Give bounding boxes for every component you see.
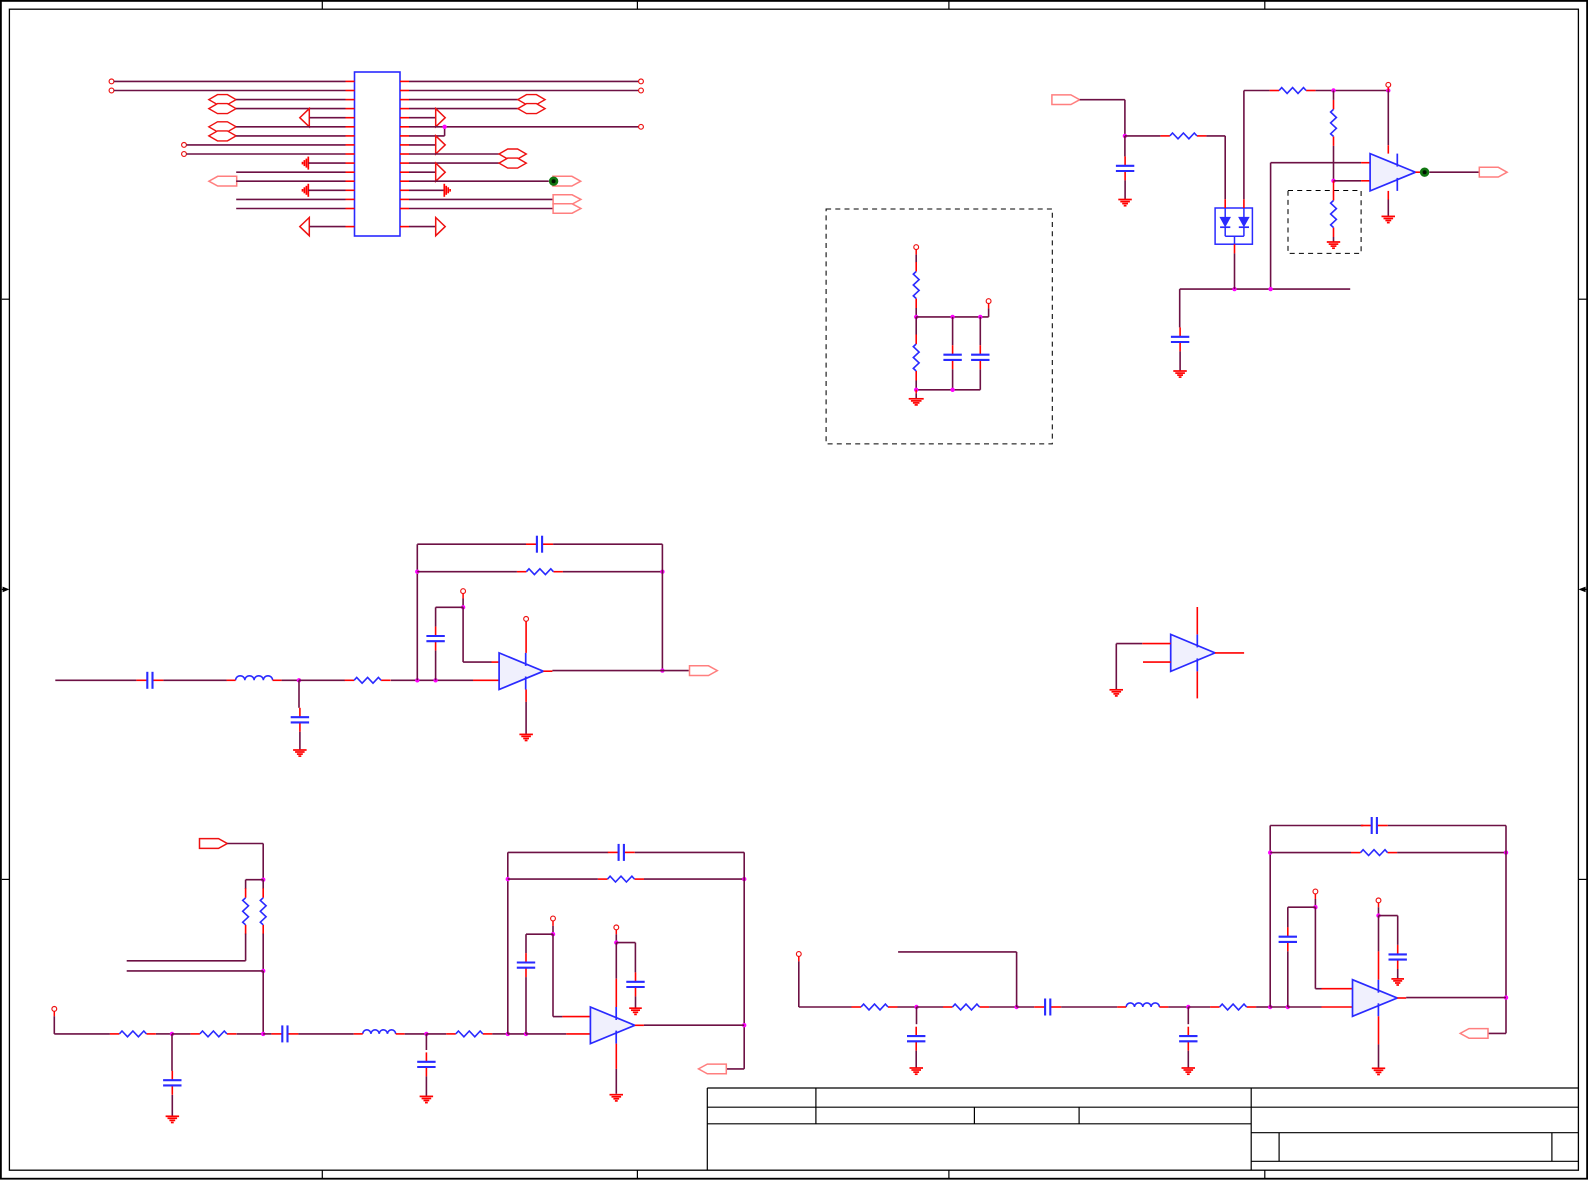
pin (566, 1033, 590, 1035)
capacitor C19 (1179, 1027, 1197, 1051)
wire (507, 852, 509, 1034)
node (524, 1032, 528, 1036)
port OUT5 (1460, 1029, 1488, 1039)
wire (1333, 237, 1335, 242)
wire (917, 1006, 944, 1008)
wire (262, 844, 264, 880)
node (1331, 88, 1335, 92)
ground (910, 1068, 924, 1074)
wire (298, 680, 300, 708)
terminal J2 pin2 (182, 152, 187, 157)
off-page connector P3L (209, 95, 236, 105)
signal ground G3 (444, 184, 450, 197)
pin (615, 930, 617, 935)
op-amp U4 (590, 1007, 635, 1044)
node (1268, 287, 1272, 291)
ground (1391, 979, 1404, 985)
wire (1487, 1032, 1506, 1034)
node (1313, 905, 1317, 909)
wire (1379, 915, 1398, 917)
node (660, 668, 664, 672)
wire (409, 180, 549, 182)
no-connect (524, 617, 529, 622)
ground (1327, 242, 1340, 248)
wire (492, 1033, 508, 1035)
off-page connector P7L (209, 131, 236, 141)
no-connect (551, 916, 556, 921)
ground (1118, 200, 1132, 206)
wire (1180, 288, 1351, 290)
wire (1429, 171, 1479, 173)
wire (1115, 644, 1117, 690)
wire (462, 599, 464, 608)
wire (236, 135, 345, 137)
wire (1270, 1006, 1288, 1008)
wire (409, 108, 518, 110)
capacitor C15 (517, 953, 535, 977)
border center arrow right (1578, 587, 1587, 593)
port OUT2 (1479, 167, 1507, 177)
wire (171, 1034, 173, 1071)
terminal (52, 1007, 57, 1012)
resistor R19 (1351, 850, 1397, 856)
op-amp U3 (499, 653, 543, 690)
wire (409, 198, 553, 200)
wire (391, 679, 473, 681)
node (1376, 913, 1380, 917)
wire (1125, 135, 1161, 137)
wire (409, 99, 518, 101)
wire (798, 961, 800, 1007)
wire (1314, 907, 1316, 989)
node (1386, 88, 1390, 92)
wire (644, 878, 744, 880)
output arrow A16R (436, 218, 446, 236)
wire (310, 226, 346, 228)
resistor R11 (1270, 88, 1316, 94)
no-connect (1313, 889, 1318, 894)
wire (409, 117, 435, 119)
inductor L3 (1117, 1003, 1168, 1007)
wire (310, 117, 346, 119)
title block (707, 1088, 1578, 1170)
net marker (1420, 168, 1429, 177)
ground (519, 734, 533, 740)
ground (420, 1096, 434, 1102)
wire (127, 960, 246, 962)
resistor R14 (913, 262, 919, 308)
wire (409, 208, 553, 210)
wire (409, 144, 435, 146)
port PT1 (209, 176, 237, 186)
wire (1061, 1006, 1117, 1008)
wire (245, 934, 247, 961)
wire (1333, 146, 1335, 181)
node (1123, 134, 1127, 138)
wire (405, 1033, 427, 1035)
wire (644, 1024, 744, 1026)
wire (1406, 997, 1506, 999)
ground (1173, 371, 1187, 377)
node (914, 1005, 918, 1009)
wire (1270, 163, 1272, 289)
off-page connector P9R (499, 149, 526, 159)
port IN4 (200, 839, 228, 849)
wire (1334, 180, 1362, 182)
node (1014, 1005, 1018, 1009)
pin (492, 661, 500, 663)
ground (1372, 1068, 1385, 1074)
node (1286, 1005, 1290, 1009)
wire (236, 126, 345, 128)
wire (553, 543, 662, 545)
wire (726, 1068, 744, 1070)
wire (1378, 907, 1380, 914)
wire (127, 970, 264, 972)
wire (1124, 136, 1126, 157)
wire (915, 381, 917, 390)
wire (156, 1033, 172, 1035)
node (914, 315, 918, 319)
wire (237, 1033, 264, 1035)
wire (553, 1016, 562, 1018)
wire (1234, 253, 1236, 289)
terminal J2 pin1 (182, 143, 187, 148)
pin (462, 593, 464, 598)
wire (262, 971, 264, 1034)
port OUT4 (699, 1064, 727, 1074)
node (506, 877, 510, 881)
wire (915, 308, 917, 317)
signal ground G2 (303, 184, 309, 197)
wire (436, 606, 464, 608)
wire (1016, 952, 1018, 1007)
wire (163, 679, 226, 681)
wire (1080, 99, 1125, 101)
wire (1206, 135, 1225, 137)
pin (615, 1044, 617, 1069)
wire (508, 878, 598, 880)
wire (1256, 1006, 1270, 1008)
capacitor C5 (526, 536, 553, 553)
power pin (615, 979, 617, 1007)
ground (166, 1116, 180, 1122)
node (1504, 995, 1508, 999)
wire (1397, 852, 1506, 854)
node (1504, 850, 1508, 854)
pin (552, 921, 554, 926)
pin (1387, 87, 1389, 90)
wire (552, 934, 554, 1016)
capacitor C4 (291, 708, 309, 732)
wire (435, 651, 437, 681)
wire (236, 208, 345, 210)
capacitor C16 (626, 972, 644, 996)
wire (53, 1016, 55, 1034)
resistor R8 (446, 1031, 492, 1037)
wire (236, 198, 345, 200)
terminal J3 pin2 (639, 88, 644, 93)
node (442, 125, 446, 129)
wire (263, 1033, 271, 1035)
wire (915, 393, 917, 398)
dashed box (826, 209, 1052, 444)
wire (1333, 91, 1335, 100)
off-page connector P6L (209, 122, 236, 132)
no-connect (1386, 82, 1391, 87)
wire (525, 702, 527, 734)
port PT4 (553, 204, 581, 213)
off-page connector P10R (499, 158, 526, 168)
IC U1 body (355, 72, 401, 236)
wire (416, 544, 418, 680)
pin (915, 390, 917, 394)
ground (293, 750, 307, 756)
wire (409, 226, 435, 228)
node (170, 1032, 174, 1036)
wire (409, 90, 639, 92)
node (1331, 179, 1335, 183)
wire (1168, 1006, 1188, 1008)
pin (1143, 661, 1171, 663)
terminal (986, 299, 991, 304)
capacitor C21 (1279, 927, 1297, 951)
wire (1288, 906, 1316, 908)
wire (426, 1033, 446, 1035)
pin (1387, 145, 1389, 153)
capacitor C14 (608, 844, 635, 861)
terminal J4 (639, 124, 644, 129)
wire (1271, 162, 1362, 164)
terminal J1 pin1 (109, 79, 114, 84)
node (1268, 850, 1272, 854)
terminal J1 pin2 (109, 88, 114, 93)
pin (473, 679, 499, 681)
node (261, 1032, 265, 1036)
node (433, 678, 437, 682)
wire (1017, 1006, 1035, 1008)
no-connect (614, 925, 619, 930)
node (415, 678, 419, 682)
wire (616, 942, 635, 944)
inductor L1 (227, 676, 282, 681)
capacitor C10 (1116, 156, 1134, 180)
pin (798, 956, 800, 961)
wire (1243, 91, 1245, 200)
wire (463, 661, 491, 663)
wire (916, 389, 980, 391)
wire (236, 108, 345, 110)
pin (543, 670, 552, 672)
wire (246, 879, 264, 881)
capacitor C22 (1389, 945, 1407, 969)
wire (915, 255, 917, 263)
wire (1269, 826, 1271, 1008)
wire (1505, 826, 1507, 1034)
wire (952, 369, 954, 390)
node (950, 315, 954, 319)
wire (245, 880, 247, 889)
resistor R15 (913, 335, 919, 381)
wire (615, 943, 617, 979)
wire (525, 977, 527, 1034)
wire (236, 99, 345, 101)
wire (552, 670, 688, 672)
pin (1378, 1016, 1380, 1044)
node (914, 388, 918, 392)
wire (1387, 91, 1389, 146)
pin (988, 303, 990, 308)
capacitor C3 (136, 672, 163, 689)
wire (1124, 100, 1126, 136)
wire (409, 80, 639, 82)
wire (1124, 180, 1126, 199)
ground (1182, 1068, 1196, 1074)
wire (552, 926, 554, 934)
power pin (1378, 951, 1380, 979)
terminal (914, 245, 919, 250)
power pin (1196, 607, 1198, 634)
port IN2 (1052, 95, 1080, 105)
input arrow A5L (300, 109, 310, 127)
wire (525, 934, 527, 953)
op-amp U6 (1171, 634, 1215, 671)
wire (635, 996, 637, 1007)
ground (1382, 216, 1396, 222)
wire (1378, 916, 1380, 952)
wire (743, 852, 745, 1069)
wire (409, 162, 499, 164)
wire (299, 679, 345, 681)
port PT3 (553, 195, 581, 204)
wire (989, 1006, 1017, 1008)
node (424, 1032, 428, 1036)
pin (1333, 181, 1335, 191)
wire (435, 607, 437, 626)
wire (1316, 90, 1389, 92)
dual diode D1 (1215, 199, 1252, 253)
wire (1179, 289, 1181, 327)
capacitor C8 (271, 1025, 298, 1042)
wire (308, 162, 345, 164)
wire (526, 1033, 566, 1035)
wire (298, 1033, 353, 1035)
node (1186, 1005, 1190, 1009)
ground (629, 1008, 642, 1014)
resistor R3 (345, 677, 391, 683)
pin (525, 690, 527, 702)
terminal J3 pin1 (639, 79, 644, 84)
net marker (549, 177, 558, 186)
wire (1270, 825, 1363, 827)
node (551, 932, 555, 936)
wire (236, 180, 345, 182)
node (297, 678, 301, 682)
wire (409, 189, 444, 191)
wire (1397, 916, 1399, 945)
output arrow A11R (436, 163, 446, 181)
wire (615, 934, 617, 941)
wire (55, 679, 136, 681)
ground (610, 1095, 624, 1101)
wire (979, 369, 981, 390)
pin (562, 1016, 590, 1018)
node (742, 1023, 746, 1027)
resistor R10 (1160, 133, 1206, 139)
pin (1387, 191, 1389, 200)
power pin (1196, 671, 1198, 698)
wire (186, 153, 345, 155)
wire (915, 317, 917, 335)
wire (1388, 825, 1506, 827)
resistor R7 (190, 1031, 236, 1037)
wire (444, 127, 446, 136)
wire (916, 316, 988, 318)
capacitor C13 (971, 345, 989, 369)
op-amp U2 (1370, 154, 1415, 191)
wire (979, 317, 981, 345)
node (742, 877, 746, 881)
border center arrow left (2, 587, 10, 593)
resistor R5A (243, 888, 249, 934)
wire (916, 1007, 918, 1024)
ground (909, 399, 924, 405)
power wire (525, 621, 527, 653)
wire (1387, 200, 1389, 216)
wire (1179, 351, 1181, 370)
pin (1361, 162, 1370, 164)
wire (417, 571, 517, 573)
wire (308, 189, 345, 191)
node (261, 969, 265, 973)
capacitor C12 (943, 345, 961, 369)
wire (1270, 852, 1351, 854)
wire (615, 1069, 617, 1094)
resistor R9 (598, 876, 644, 882)
wire (1314, 899, 1316, 907)
wire (1188, 1006, 1210, 1008)
node (614, 940, 618, 944)
node (978, 315, 982, 319)
wire (262, 934, 264, 971)
capacitor C7 (163, 1071, 181, 1095)
capacitor C20 (1361, 817, 1388, 834)
pin (1142, 643, 1170, 645)
node (1268, 1005, 1272, 1009)
wire (1287, 907, 1289, 927)
node (461, 605, 465, 609)
resistor R12 (1331, 100, 1337, 146)
wire (54, 1033, 110, 1035)
wire (563, 571, 663, 573)
wire (952, 317, 954, 345)
wire (462, 607, 464, 662)
wire (425, 1076, 427, 1096)
ground (1110, 690, 1124, 696)
pin (1322, 988, 1353, 990)
wire (409, 126, 639, 128)
wire (236, 171, 345, 173)
wire (299, 732, 301, 750)
node (950, 388, 954, 392)
pin (1378, 903, 1380, 908)
pin (1397, 997, 1406, 999)
off-page connector P3R (518, 95, 545, 105)
output arrow A5R (436, 109, 446, 127)
pin (1215, 652, 1244, 654)
wire (1187, 1007, 1189, 1024)
pin (635, 1024, 644, 1026)
